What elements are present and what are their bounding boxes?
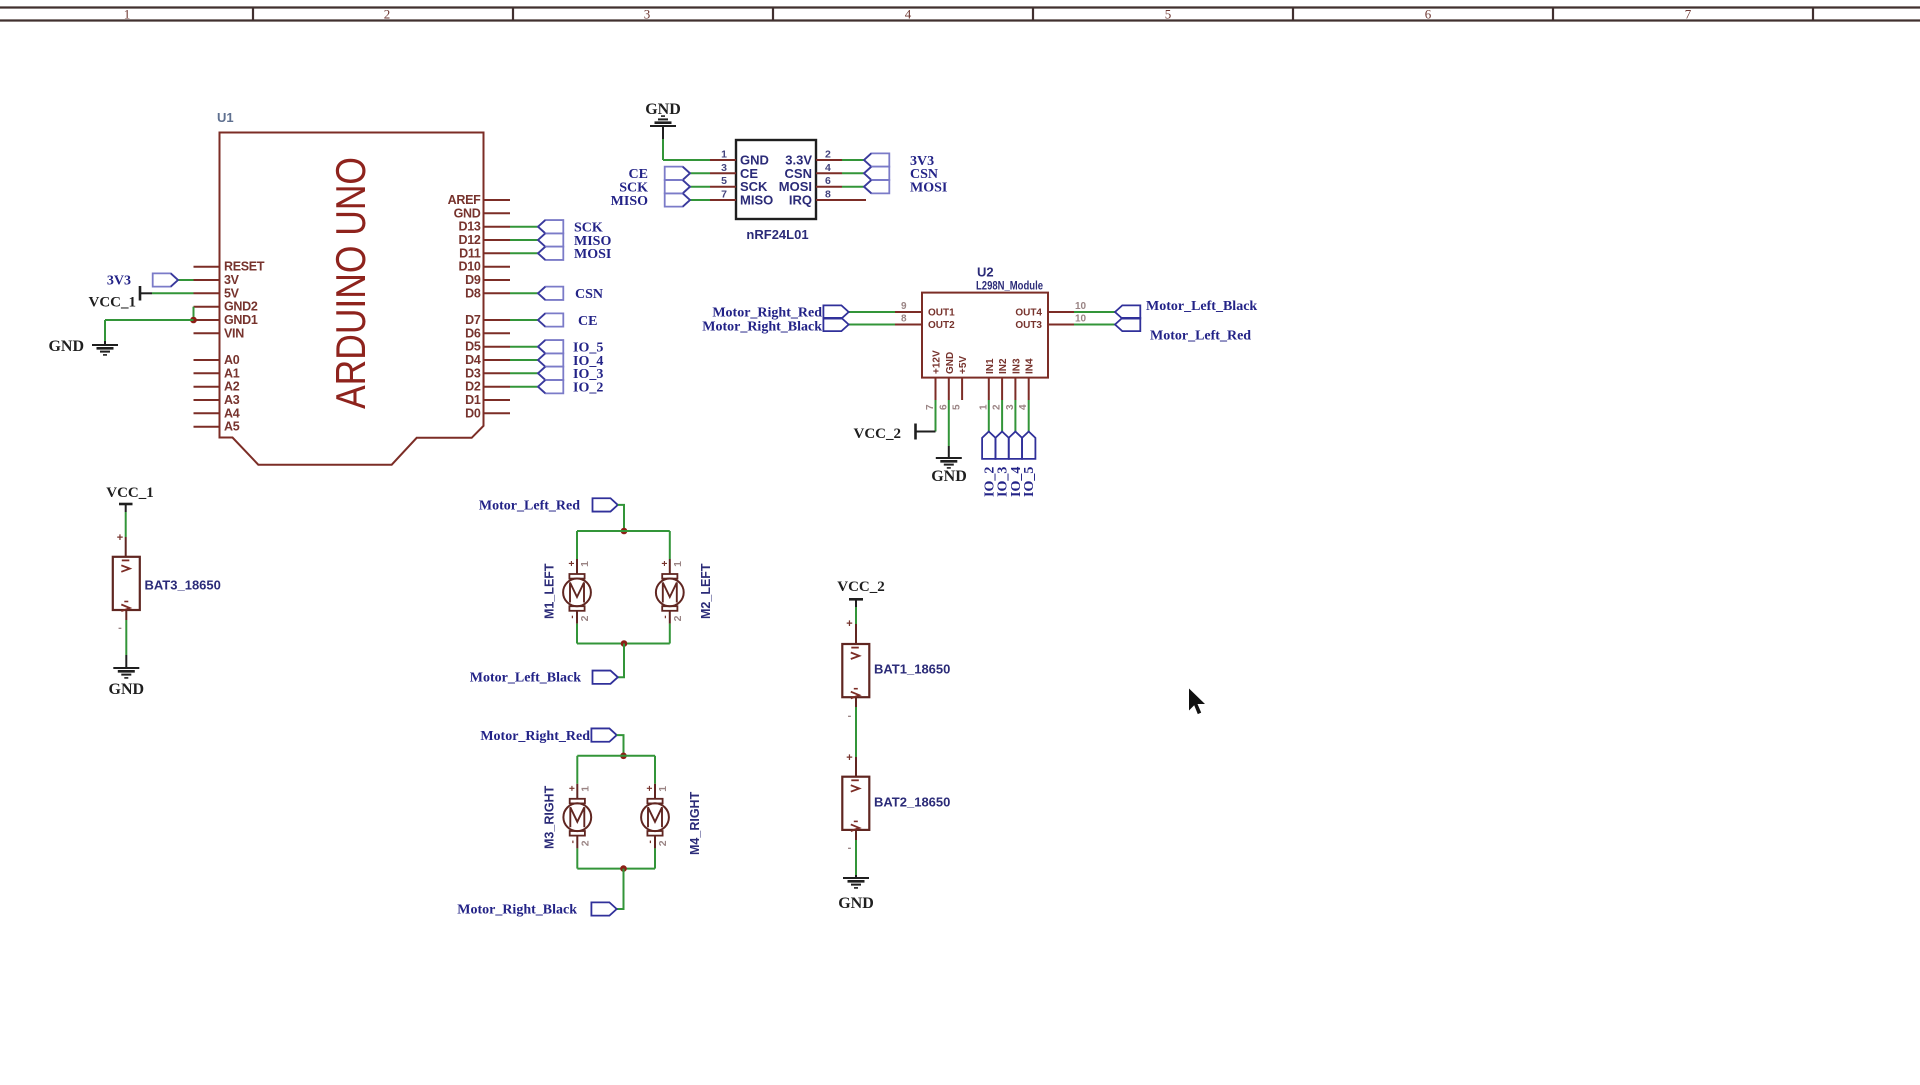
svg-text:MOSI: MOSI bbox=[910, 181, 947, 196]
svg-text:GND: GND bbox=[838, 895, 874, 912]
svg-text:2: 2 bbox=[579, 840, 591, 846]
svg-text:+: + bbox=[846, 752, 852, 764]
svg-text:-: - bbox=[567, 840, 578, 843]
node Motor_Right_Red net flag at U2.OUT1 bbox=[712, 305, 895, 320]
wire nRF to CSN flag bbox=[842, 172, 864, 174]
U1 pin AREF bbox=[448, 193, 510, 207]
svg-text:D8: D8 bbox=[465, 286, 481, 300]
svg-text:OUT2: OUT2 bbox=[928, 320, 955, 331]
wire top rail M3-M4 bbox=[577, 755, 655, 757]
wire flag to rail bbox=[618, 505, 624, 531]
svg-text:D6: D6 bbox=[465, 326, 481, 340]
node Motor_Left_Red net flag above M1/M2 bbox=[479, 498, 624, 531]
svg-text:Motor_Left_Red: Motor_Left_Red bbox=[1150, 329, 1251, 344]
svg-text:A1: A1 bbox=[224, 366, 240, 380]
svg-text:10: 10 bbox=[1075, 301, 1087, 312]
svg-text:BAT2_18650: BAT2_18650 bbox=[874, 795, 950, 810]
svg-text:D11: D11 bbox=[459, 246, 481, 260]
U1 pin D6 bbox=[465, 326, 510, 340]
node MISO net flag at nRF24L01 bbox=[611, 193, 710, 208]
svg-text:Motor_Right_Black: Motor_Right_Black bbox=[457, 903, 577, 918]
svg-text:2: 2 bbox=[657, 840, 669, 846]
svg-text:8: 8 bbox=[825, 189, 831, 201]
ground GND at U2 pin GND bbox=[931, 400, 967, 485]
svg-text:A2: A2 bbox=[224, 380, 240, 394]
motor M4_RIGHT bbox=[641, 756, 702, 869]
svg-text:+: + bbox=[567, 560, 578, 566]
svg-text:Motor_Left_Black: Motor_Left_Black bbox=[1146, 299, 1257, 314]
motor M1_LEFT bbox=[543, 531, 592, 644]
svg-text:D3: D3 bbox=[465, 366, 481, 380]
svg-text:-: - bbox=[645, 840, 656, 843]
wire U1 to MISO flag bbox=[510, 239, 538, 241]
U2 pin 7 +12V bbox=[925, 350, 943, 410]
svg-text:5: 5 bbox=[1165, 7, 1172, 22]
svg-text:OUT1: OUT1 bbox=[928, 308, 955, 319]
svg-text:Motor_Right_Black: Motor_Right_Black bbox=[702, 320, 822, 335]
nRF24L01 pin 6 MOSI bbox=[779, 175, 842, 194]
svg-text:IO_2: IO_2 bbox=[573, 381, 603, 396]
svg-text:1: 1 bbox=[124, 7, 131, 22]
node CSN net flag at U1 pin D8 bbox=[510, 287, 603, 302]
svg-text:Motor_Right_Red: Motor_Right_Red bbox=[480, 729, 590, 744]
svg-text:IRQ: IRQ bbox=[789, 193, 812, 208]
svg-text:IN4: IN4 bbox=[1025, 358, 1036, 374]
svg-text:6: 6 bbox=[825, 175, 831, 187]
svg-text:1: 1 bbox=[721, 149, 727, 161]
wire 3V3 to U1.3V bbox=[178, 279, 194, 281]
svg-text:Motor_Left_Red: Motor_Left_Red bbox=[479, 499, 580, 514]
svg-text:+12V: +12V bbox=[932, 350, 943, 374]
svg-text:BAT3_18650: BAT3_18650 bbox=[145, 578, 221, 593]
svg-text:4: 4 bbox=[905, 7, 912, 22]
svg-text:L298N_Module: L298N_Module bbox=[976, 279, 1043, 293]
wire ground to nRF pin 1 bbox=[662, 139, 664, 160]
wire nRF to MOSI flag bbox=[842, 186, 864, 188]
ground GND below BAT3 bbox=[109, 668, 145, 698]
node SCK net flag at U1 bbox=[510, 220, 603, 235]
U1 pin A1 bbox=[194, 366, 240, 380]
svg-text:2: 2 bbox=[825, 149, 831, 161]
svg-text:1: 1 bbox=[978, 404, 989, 410]
nRF24L01 pin 1 GND bbox=[710, 149, 769, 168]
svg-text:IN3: IN3 bbox=[1011, 358, 1022, 374]
svg-text:+: + bbox=[846, 618, 852, 630]
svg-text:7: 7 bbox=[925, 404, 936, 410]
svg-text:VIN: VIN bbox=[224, 326, 244, 340]
svg-text:-: - bbox=[660, 615, 671, 618]
svg-text:D5: D5 bbox=[465, 340, 481, 354]
svg-text:7: 7 bbox=[721, 189, 727, 201]
wire U2 to IO_2 flag bbox=[988, 400, 990, 432]
svg-text:2: 2 bbox=[579, 615, 591, 621]
svg-text:GND: GND bbox=[48, 338, 84, 355]
node VCC_2 supply at U2 pin +12V bbox=[854, 400, 936, 442]
U1 pin RESET bbox=[194, 260, 265, 274]
U1 pin D0 bbox=[465, 406, 510, 420]
svg-text:OUT3: OUT3 bbox=[1015, 320, 1042, 331]
svg-text:MISO: MISO bbox=[740, 193, 773, 208]
svg-text:BAT1_18650: BAT1_18650 bbox=[874, 662, 950, 677]
svg-text:1: 1 bbox=[657, 786, 669, 792]
svg-text:8: 8 bbox=[901, 314, 907, 325]
junction at GND1 bbox=[190, 317, 197, 324]
ground GND at U1 pins GND1/GND2 bbox=[48, 307, 196, 355]
svg-text:OUT4: OUT4 bbox=[1015, 308, 1042, 319]
nRF24L01 pin 4 CSN bbox=[785, 162, 842, 181]
U1 pin D2 bbox=[465, 380, 510, 394]
svg-text:10: 10 bbox=[1075, 314, 1087, 325]
U2 pin 2 IN2 bbox=[992, 358, 1010, 410]
junction bottom rail left motors bbox=[621, 640, 628, 647]
node MOSI net flag at nRF24L01 right bbox=[842, 180, 947, 195]
wire BAT3 to ground bbox=[118, 610, 126, 668]
svg-text:M2_LEFT: M2_LEFT bbox=[699, 563, 713, 619]
svg-text:D7: D7 bbox=[465, 313, 481, 327]
svg-text:MISO: MISO bbox=[611, 194, 648, 209]
U1 pin D3 bbox=[465, 366, 510, 380]
node IO_3 net flag at U1 bbox=[510, 367, 603, 382]
svg-text:3: 3 bbox=[721, 162, 727, 174]
U1 pin D1 bbox=[465, 393, 510, 407]
wire U2 to IO_5 flag bbox=[1028, 400, 1030, 432]
node IO_2 net flag at U2 bbox=[982, 400, 997, 497]
node Motor_Right_Black net flag at U2.OUT2 bbox=[702, 318, 895, 335]
nRF24L01 pin 3 CE bbox=[710, 162, 758, 181]
IC U1 ARDUINO UNO symbol body bbox=[217, 110, 484, 465]
svg-text:A3: A3 bbox=[224, 393, 240, 407]
svg-text:3V3: 3V3 bbox=[107, 274, 131, 289]
svg-text:D4: D4 bbox=[465, 353, 481, 367]
svg-text:VCC_2: VCC_2 bbox=[837, 579, 885, 595]
U1 pin A3 bbox=[194, 393, 240, 407]
svg-text:+: + bbox=[660, 560, 671, 566]
U2 pin 8 OUT2 bbox=[895, 314, 955, 332]
svg-text:1: 1 bbox=[579, 561, 591, 567]
wire nRF to 3V3 flag bbox=[842, 159, 864, 161]
U2 pin 10 OUT3 bbox=[1015, 314, 1086, 332]
IC nRF24L01 symbol body bbox=[736, 140, 816, 242]
wire MISO flag to nRF bbox=[690, 199, 710, 201]
svg-text:IN1: IN1 bbox=[985, 358, 996, 374]
node VCC_1 supply above BAT3 bbox=[106, 485, 154, 557]
svg-text:+: + bbox=[117, 532, 123, 544]
svg-text:GND: GND bbox=[109, 681, 145, 698]
U2 pin 6 GND bbox=[938, 352, 956, 410]
node CE net flag at U1 pin D7 bbox=[510, 313, 597, 328]
wire CE flag to nRF bbox=[690, 172, 710, 174]
motor M3_RIGHT bbox=[543, 756, 592, 869]
svg-text:M1_LEFT: M1_LEFT bbox=[543, 563, 557, 619]
U1 pin GND2 bbox=[194, 300, 258, 314]
battery BAT3_18650 bbox=[113, 557, 221, 611]
svg-text:3: 3 bbox=[644, 7, 651, 22]
svg-text:GND: GND bbox=[945, 352, 956, 374]
svg-text:VCC_1: VCC_1 bbox=[106, 485, 154, 501]
svg-text:D2: D2 bbox=[465, 380, 481, 394]
svg-text:3: 3 bbox=[1005, 404, 1016, 410]
nRF24L01 pin 5 SCK bbox=[710, 175, 768, 194]
svg-text:4: 4 bbox=[1018, 404, 1029, 410]
svg-text:IN2: IN2 bbox=[998, 358, 1009, 374]
U1 pin GND1 bbox=[194, 313, 258, 327]
svg-text:U2: U2 bbox=[977, 265, 994, 280]
node IO_3 net flag at U2 bbox=[995, 400, 1010, 497]
svg-text:A0: A0 bbox=[224, 353, 240, 367]
wire BAT2 to ground bbox=[848, 830, 856, 878]
junction top rail left motors bbox=[621, 528, 628, 535]
svg-text:D1: D1 bbox=[465, 393, 481, 407]
U1 pin A5 bbox=[194, 420, 240, 434]
mouse cursor bbox=[1189, 689, 1205, 715]
svg-text:2: 2 bbox=[992, 404, 1003, 410]
svg-text:Motor_Right_Red: Motor_Right_Red bbox=[712, 306, 822, 321]
wire GND2 to GND1 bbox=[193, 307, 195, 320]
battery BAT2_18650 bbox=[842, 777, 950, 831]
svg-text:-: - bbox=[848, 842, 852, 854]
svg-text:9: 9 bbox=[901, 301, 907, 312]
U1 pin D10 bbox=[458, 260, 510, 274]
node CE net flag at nRF24L01 bbox=[629, 167, 710, 182]
U1 pin A4 bbox=[194, 406, 240, 420]
node IO_4 net flag at U2 bbox=[1009, 400, 1024, 497]
node 3V3 net flag at nRF24L01 right bbox=[842, 153, 934, 168]
ground GND above nRF24L01 bbox=[645, 101, 710, 160]
svg-text:5V: 5V bbox=[224, 286, 240, 300]
svg-text:AREF: AREF bbox=[448, 193, 481, 207]
U1 pin D8 bbox=[465, 286, 510, 300]
svg-text:D13: D13 bbox=[458, 220, 480, 234]
svg-text:GND: GND bbox=[931, 468, 967, 485]
svg-text:2: 2 bbox=[672, 615, 684, 621]
svg-text:5: 5 bbox=[952, 404, 963, 410]
nRF24L01 pin 2 3.3V bbox=[785, 149, 842, 168]
U1 pin D11 bbox=[459, 246, 510, 260]
wire VCC_1 to BAT3 bbox=[125, 512, 127, 537]
wire U2 to IO_4 flag bbox=[1014, 400, 1016, 432]
wire +12V down bbox=[935, 400, 937, 432]
svg-text:M3_RIGHT: M3_RIGHT bbox=[543, 785, 557, 849]
svg-text:VCC_1: VCC_1 bbox=[89, 295, 137, 311]
wire BAT1 to BAT2 bbox=[846, 697, 856, 777]
U1 pin VIN bbox=[194, 326, 245, 340]
U1 pin A2 bbox=[194, 380, 240, 394]
node Motor_Right_Black net flag below M3/M4 bbox=[457, 869, 623, 918]
U1 pin GND bbox=[454, 206, 510, 220]
svg-text:A4: A4 bbox=[224, 406, 240, 420]
svg-text:+: + bbox=[645, 785, 656, 791]
U2 pin 3 IN3 bbox=[1005, 358, 1023, 410]
svg-text:CSN: CSN bbox=[575, 287, 603, 302]
svg-text:nRF24L01: nRF24L01 bbox=[746, 227, 808, 242]
U1 pin 5V bbox=[194, 286, 240, 300]
U1 pin A0 bbox=[194, 353, 240, 367]
U2 pin 4 IN4 bbox=[1018, 358, 1036, 410]
node IO_2 net flag at U1 bbox=[510, 380, 603, 395]
svg-text:GND: GND bbox=[454, 206, 481, 220]
node 3V3 net flag at U1 pin 3V bbox=[107, 273, 194, 288]
wire VCC_1 to U1.5V bbox=[152, 292, 194, 294]
node Motor_Left_Black net flag below M1/M2 bbox=[470, 644, 624, 686]
node VCC_1 supply at U1 pin 5V bbox=[89, 286, 194, 311]
node IO_5 net flag at U1 bbox=[510, 340, 603, 355]
U2 pin 1 IN1 bbox=[978, 358, 996, 410]
svg-text:6: 6 bbox=[938, 404, 949, 410]
motor M2_LEFT bbox=[656, 531, 713, 644]
svg-text:M4_RIGHT: M4_RIGHT bbox=[688, 791, 702, 855]
node Motor_Left_Red net flag at U2.OUT3 bbox=[1074, 318, 1251, 344]
svg-text:2: 2 bbox=[384, 7, 391, 22]
junction bottom rail right motors bbox=[620, 865, 627, 872]
node SCK net flag at nRF24L01 bbox=[619, 180, 710, 195]
svg-text:D9: D9 bbox=[465, 273, 481, 287]
U1 pin 3V bbox=[194, 273, 240, 287]
svg-text:7: 7 bbox=[1685, 7, 1692, 22]
U2 pin 9 OUT1 bbox=[895, 301, 955, 319]
nRF24L01 pin 7 MISO bbox=[710, 189, 773, 208]
U2 pin 10 OUT4 bbox=[1015, 301, 1086, 319]
node CSN net flag at nRF24L01 right bbox=[842, 167, 938, 182]
svg-text:Motor_Left_Black: Motor_Left_Black bbox=[470, 671, 581, 686]
IC U2 L298N_Module symbol body bbox=[922, 265, 1048, 378]
svg-text:GND2: GND2 bbox=[224, 300, 258, 314]
svg-text:D0: D0 bbox=[465, 406, 481, 420]
wire U1 to MOSI flag bbox=[510, 252, 538, 254]
wire VCC_2 to BAT1 bbox=[855, 607, 857, 624]
node MISO net flag at U1 bbox=[510, 233, 611, 248]
wire bottom rail M3-M4 bbox=[577, 868, 655, 870]
U1 pin D4 bbox=[465, 353, 510, 367]
svg-text:U1: U1 bbox=[217, 110, 234, 125]
wire bottom rail M1-M2 bbox=[577, 643, 670, 645]
U1 pin D12 bbox=[458, 233, 510, 247]
svg-text:D10: D10 bbox=[458, 260, 480, 274]
ground GND below BAT2 bbox=[838, 878, 874, 912]
svg-text:+: + bbox=[567, 785, 578, 791]
node Motor_Right_Red net flag above M3/M4 bbox=[480, 728, 623, 755]
svg-text:RESET: RESET bbox=[224, 260, 265, 274]
junction top rail right motors bbox=[620, 753, 627, 760]
svg-text:1: 1 bbox=[579, 786, 591, 792]
svg-text:1: 1 bbox=[672, 561, 684, 567]
node MOSI net flag at U1 bbox=[510, 247, 611, 262]
node IO_4 net flag at U1 bbox=[510, 353, 603, 368]
nRF24L01 pin 8 IRQ bbox=[789, 189, 866, 208]
svg-text:A5: A5 bbox=[224, 420, 240, 434]
wire SCK flag to nRF bbox=[690, 186, 710, 188]
svg-text:+5V: +5V bbox=[958, 356, 969, 374]
ground symbol bbox=[92, 344, 118, 346]
svg-text:VCC_2: VCC_2 bbox=[854, 426, 902, 442]
svg-text:3V: 3V bbox=[224, 273, 240, 287]
U1 pin D9 bbox=[465, 273, 510, 287]
U1 pin D7 bbox=[465, 313, 510, 327]
node IO_5 net flag at U2 bbox=[1022, 400, 1037, 497]
svg-text:-: - bbox=[848, 710, 852, 722]
wire U1 to SCK flag bbox=[510, 226, 538, 228]
svg-text:4: 4 bbox=[825, 162, 831, 174]
battery BAT1_18650 bbox=[842, 644, 950, 698]
svg-text:MOSI: MOSI bbox=[574, 247, 611, 262]
svg-text:D12: D12 bbox=[458, 233, 480, 247]
node Motor_Left_Black net flag at U2.OUT4 bbox=[1074, 299, 1257, 319]
svg-text:6: 6 bbox=[1425, 7, 1432, 22]
wire U2 to IO_3 flag bbox=[1001, 400, 1003, 432]
U2 pin 5 +5V bbox=[952, 356, 970, 410]
node VCC_2 supply above BAT1 bbox=[837, 579, 885, 644]
U1 pin D13 bbox=[458, 220, 510, 234]
svg-text:GND1: GND1 bbox=[224, 313, 258, 327]
wire GND1 to ground symbol bbox=[105, 319, 194, 321]
svg-text:ARDUINO UNO: ARDUINO UNO bbox=[327, 157, 374, 409]
svg-text:-: - bbox=[118, 622, 122, 634]
svg-text:CE: CE bbox=[578, 314, 597, 329]
svg-text:-: - bbox=[567, 615, 578, 618]
U1 pin D5 bbox=[465, 340, 510, 354]
ground symbol bbox=[936, 457, 962, 459]
svg-text:5: 5 bbox=[721, 175, 727, 187]
wire top rail M1-M2 bbox=[577, 530, 670, 532]
svg-text:IO_5: IO_5 bbox=[1022, 467, 1037, 497]
